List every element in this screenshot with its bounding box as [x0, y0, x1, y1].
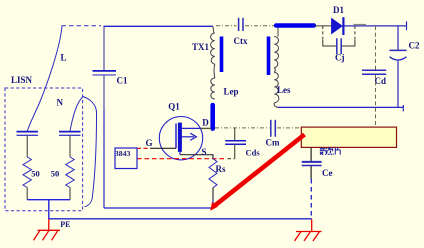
svg-text:Cj: Cj: [335, 53, 345, 63]
capacitor Cds lead upper: [234, 128, 236, 140]
inductor Les: [274, 73, 279, 103]
ground left (red earth): [34, 219, 61, 240]
capacitor Ce: [302, 162, 322, 166]
capacitor Cj: [337, 38, 341, 54]
capacitor C2: [390, 26, 407, 108]
capacitor LISN-left: [17, 132, 39, 157]
ground right (red earth): [295, 219, 322, 241]
diode D1: [332, 17, 344, 35]
svg-text:50: 50: [51, 169, 60, 179]
capacitor Cd: [362, 70, 386, 74]
capacitor LISN-right: [59, 132, 81, 157]
Q1 drain stub: [182, 127, 201, 129]
resistor 50 left: [23, 157, 31, 188]
heatsink label (san re pian): [320, 147, 340, 155]
port tick bottom right: [402, 105, 404, 111]
capacitor Ctx: [239, 18, 243, 31]
wire S red dashed feedback: [137, 158, 227, 160]
wire G red dashed: [137, 147, 151, 149]
svg-text:N: N: [57, 98, 64, 108]
LISN box: [5, 88, 83, 211]
TX1 primary top connector: [212, 26, 215, 33]
capacitor Cds: [225, 141, 246, 145]
svg-text:C2: C2: [409, 41, 420, 51]
wire L slant: [27, 26, 62, 131]
wire LISN bottom join: [27, 200, 70, 219]
svg-text:D1: D1: [333, 5, 344, 15]
wire S: [180, 155, 213, 159]
wire dash-dot coupling (Ctx to secondary top): [245, 25, 275, 27]
heatsink box: [301, 127, 396, 147]
svg-text:Cds: Cds: [246, 148, 261, 158]
Q1 channel bar: [178, 123, 182, 152]
svg-text:3843: 3843: [115, 149, 131, 158]
svg-text:LISN: LISN: [11, 75, 33, 85]
wire D1 cathode out to port: [345, 25, 407, 27]
svg-text:Q1: Q1: [168, 101, 180, 111]
capacitor Cm: [271, 120, 276, 137]
svg-text:Les: Les: [277, 85, 291, 95]
wire olive overlay segment: [354, 23, 367, 25]
capacitor Ce lead lower: [310, 166, 312, 179]
resistor 50 right lead: [69, 188, 71, 200]
wire dash-dot D-node to heatsink: [215, 127, 270, 129]
svg-text:TX1: TX1: [192, 42, 210, 52]
TX1 left core bar: [220, 37, 224, 73]
TX1 primary winding: [211, 33, 215, 64]
wire primary bottom return: [104, 207, 212, 209]
wire D connector: [201, 127, 211, 129]
wire PE bus: [49, 218, 312, 220]
svg-text:Rs: Rs: [216, 164, 226, 174]
wire dash-dot coupling (primary top to Ctx): [216, 25, 237, 27]
svg-text:Cm: Cm: [266, 138, 280, 148]
inductor Lep connector: [213, 64, 216, 78]
TX1 secondary top connector: [277, 27, 279, 37]
TX1 secondary winding: [274, 37, 278, 68]
inductor Les connector: [273, 68, 276, 73]
svg-text:C1: C1: [117, 76, 128, 86]
svg-text:Ctx: Ctx: [234, 36, 248, 46]
wire Ce dashed to PE: [310, 179, 312, 219]
wire Rs bottom lead: [212, 188, 214, 200]
capacitor C1: [93, 26, 117, 208]
TX1 right core bar: [267, 37, 271, 76]
capacitor Cd dashed lead lower: [375, 75, 377, 127]
resistor 50 right: [66, 157, 74, 188]
wire dash-dot Cm to heatsink: [277, 127, 301, 129]
wire N curve: [70, 97, 97, 207]
Q1 body arrow: [182, 133, 196, 140]
svg-text:PE: PE: [60, 220, 70, 229]
inductor Lep: [211, 78, 215, 99]
wire secondary bottom: [278, 106, 403, 108]
capacitor Cd dashed lead upper: [375, 26, 377, 70]
wire dashed olive to Cds: [228, 158, 235, 160]
capacitor Cj dashed leads: [323, 26, 355, 46]
wire thick D-node bar: [210, 105, 215, 129]
wire secondary bold top: [276, 23, 314, 27]
svg-text:G: G: [146, 138, 153, 148]
port tick top right: [406, 21, 408, 30]
transistor Q1 circle: [159, 117, 202, 160]
svg-text:D: D: [202, 118, 209, 128]
capacitor Cds lead lower: [234, 145, 236, 159]
IC 3843 box: [115, 148, 137, 169]
wire Les to bottom line: [274, 103, 278, 108]
resistor Rs: [209, 159, 217, 188]
wire Rs to return riser: [212, 200, 214, 209]
svg-text:Lep: Lep: [224, 87, 239, 97]
svg-text:Ce: Ce: [322, 168, 333, 178]
resistor 50 left lead: [26, 188, 28, 200]
wire bold-bar to D1: [314, 25, 332, 27]
wire top main (C1 to TX1): [104, 25, 214, 27]
svg-text:50: 50: [31, 169, 40, 179]
Q1 source stub: [179, 152, 181, 155]
wire top dashed L segment: [62, 25, 102, 27]
svg-text:S: S: [202, 147, 207, 157]
wire G black: [151, 147, 177, 149]
svg-text:Cd: Cd: [375, 76, 387, 86]
Q1 gate plate: [175, 124, 177, 149]
capacitor Ce lead upper: [310, 147, 312, 161]
svg-text:L: L: [61, 53, 67, 63]
red disturbance path arrow: [210, 135, 304, 211]
